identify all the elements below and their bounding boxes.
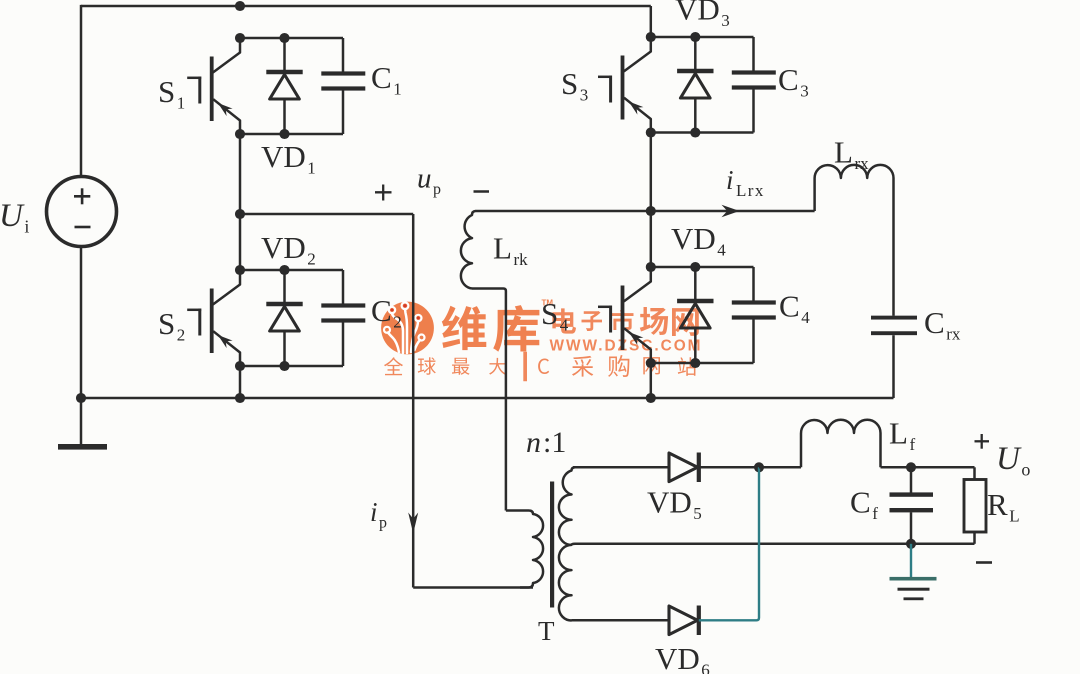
svg-text:VD5: VD5 [647, 485, 702, 524]
svg-text:Ui: Ui [0, 198, 29, 237]
ground (output side) [910, 544, 912, 577]
wire VD6 cathode riser to rectifier node [699, 467, 759, 620]
wire S1 cell top [240, 37, 343, 40]
inductor Lf [801, 420, 881, 468]
snubber capacitor C3 [732, 37, 776, 133]
junction VD2 anode node [279, 361, 289, 371]
wire S3 cell top [651, 36, 754, 39]
wire VD5 cathode to rectifier node [699, 466, 759, 469]
wire top rail [81, 5, 651, 8]
wire top rail to S3 collector [650, 6, 653, 37]
junction S3 collector node [646, 32, 656, 42]
freewheeling diode VD4 [677, 267, 713, 363]
filter capacitor Cf [890, 467, 934, 544]
svg-text:n: n [526, 426, 541, 459]
junction bridge right midpoint (node B) [646, 206, 656, 216]
IGBT S4 [598, 267, 651, 363]
label + (output) [975, 440, 990, 442]
freewheeling diode VD3 [677, 37, 713, 133]
svg-text:C1: C1 [371, 60, 402, 99]
wire S2 emitter to bottom rail [239, 366, 242, 398]
junction output return node [906, 539, 916, 549]
Ui plus sign [74, 195, 90, 198]
wire rectifier node to Lf [759, 466, 801, 469]
svg-text:Uo: Uo [996, 441, 1030, 480]
svg-text:VD6: VD6 [655, 641, 710, 674]
svg-text::1: :1 [543, 426, 566, 459]
watermark: big characters 维库 [442, 305, 540, 352]
svg-text:VD4: VD4 [671, 221, 726, 260]
svg-text:Cf: Cf [850, 485, 878, 524]
junction VD3 anode node [690, 127, 700, 137]
svg-text:S3: S3 [561, 66, 588, 105]
svg-text:S1: S1 [158, 74, 185, 113]
freewheeling diode VD1 [266, 38, 302, 134]
svg-text:Lf: Lf [889, 416, 915, 455]
IGBT S2 [187, 270, 240, 366]
Ui minus sign [75, 226, 91, 229]
rectifier diode VD6 [669, 606, 699, 636]
wire output node to RL [911, 466, 975, 469]
junction VD1 anode node [279, 129, 289, 139]
IGBT S1 [187, 38, 240, 134]
svg-text:WWW.DZSC.COM: WWW.DZSC.COM [550, 337, 703, 354]
junction S4 leg / bottom rail [646, 393, 656, 403]
wire RL to output return [973, 532, 976, 544]
junction VD1 cathode node [279, 33, 289, 43]
junction VD3 cathode node [690, 32, 700, 42]
ground (input side) [80, 398, 83, 445]
junction bottom rail / Ui leg [76, 393, 86, 403]
wire S4 cell bottom [651, 362, 754, 365]
junction output top node [906, 462, 916, 472]
svg-text:RL: RL [987, 487, 1020, 526]
wire Lf to output node [881, 466, 912, 469]
junction rectifier output node [754, 462, 764, 472]
svg-text:Lrx: Lrx [736, 181, 765, 200]
voltage source Ui circle [47, 177, 117, 247]
svg-text:VD1: VD1 [261, 139, 316, 178]
wire secondary bottom lead to VD6 [572, 619, 670, 622]
watermark: characters 全球最大IC采购网站 [384, 352, 696, 381]
label - (primary voltage) [474, 190, 490, 193]
junction VD2 cathode node [279, 265, 289, 275]
junction S3 emitter node [646, 127, 656, 137]
resonant capacitor Crx [871, 316, 917, 398]
wire S4 cell top [651, 266, 754, 269]
snubber capacitor C4 [732, 267, 776, 363]
current arrow ip [408, 513, 418, 534]
inductor Lrx [815, 165, 894, 211]
junction bridge left midpoint (node A) [235, 209, 245, 219]
wire node A to primary (+ side) [240, 213, 413, 216]
transformer T primary winding [506, 511, 543, 588]
svg-text:T: T [538, 616, 555, 646]
wire bottom rail [81, 397, 894, 400]
svg-text:S4: S4 [541, 296, 569, 335]
svg-text:C3: C3 [778, 62, 809, 101]
svg-text:C2: C2 [371, 293, 402, 332]
wire S2 cell top [240, 269, 343, 272]
svg-text:VD3: VD3 [675, 0, 730, 30]
wire secondary top lead to VD5 [573, 466, 669, 469]
wire Lrx to Crx [892, 178, 895, 316]
svg-text:C4: C4 [779, 289, 810, 328]
watermark: dzsc.com logo circle [381, 302, 434, 355]
svg-text:S2: S2 [158, 306, 185, 345]
svg-text:up: up [417, 163, 441, 199]
rectifier diode VD5 [669, 453, 699, 483]
snubber capacitor C1 [321, 38, 365, 134]
junction S4 emitter node [646, 358, 656, 368]
wire S1 cell bottom [240, 133, 343, 136]
svg-text:ip: ip [370, 497, 387, 532]
label + (primary voltage) [375, 191, 392, 193]
junction top rail / S1 leg [235, 1, 245, 11]
junction S1 collector node [235, 33, 245, 43]
transformer T secondary winding [559, 467, 575, 620]
svg-text:i: i [726, 165, 734, 195]
snubber capacitor C2 [321, 270, 365, 366]
freewheeling diode VD2 [266, 270, 302, 366]
transformer T core [550, 482, 554, 608]
junction S2 collector node [235, 265, 245, 275]
wire S3 cell bottom [651, 131, 754, 134]
wire S2 cell bottom [240, 365, 343, 368]
wire Ui to bottom rail [80, 247, 83, 399]
wire transformer center tap to output return [572, 544, 975, 545]
junction VD4 anode node [690, 358, 700, 368]
svg-text:Lrk: Lrk [493, 231, 528, 270]
wire S4 emitter to bottom rail [650, 363, 653, 398]
junction S1 emitter node [235, 129, 245, 139]
current arrow iLrx [722, 205, 740, 217]
junction S2 emitter node [235, 361, 245, 371]
load resistor RL [964, 480, 986, 533]
watermark: characters 电子市场网 [552, 307, 698, 336]
wire S3 emitter to S4 collector [650, 133, 653, 268]
junction VD4 cathode node [690, 262, 700, 272]
wire S1 emitter to S2 collector [239, 134, 242, 270]
svg-text:Lrx: Lrx [834, 135, 869, 174]
junction S2 leg / bottom rail [235, 393, 245, 403]
junction S4 collector node [646, 262, 656, 272]
inductor Lrk [461, 211, 651, 289]
wire Lrk bottom to primary top [472, 289, 506, 511]
svg-text:Crx: Crx [924, 305, 961, 344]
wire Ui to top rail [80, 5, 83, 177]
wire primary bottom lead [413, 586, 533, 589]
IGBT S3 [598, 37, 651, 133]
wire node B to iLrx branch [651, 210, 815, 213]
wire ip branch down [412, 214, 415, 588]
watermark: logo white circuit-tree [388, 309, 420, 353]
svg-text:VD2: VD2 [261, 230, 316, 269]
label - (output) [976, 561, 992, 564]
